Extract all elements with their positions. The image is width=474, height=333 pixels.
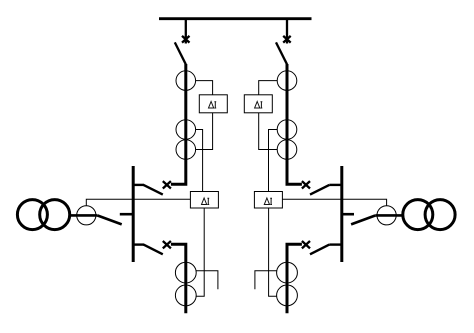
wire CT pair bottom to relay bottom feeder2 — [259, 113, 278, 150]
wire CT pair top to middle relay feeder2 — [269, 130, 278, 192]
disconnector blade upper left branch — [144, 185, 163, 195]
CT feeder2 upper — [277, 71, 297, 91]
transformer T2 right — [403, 200, 455, 230]
busbar — [159, 17, 312, 20]
CT feeder2 pair top — [277, 120, 297, 140]
relay box ΔI feeder2 middle — [254, 192, 282, 209]
wire bar stub upper left — [132, 184, 144, 186]
circuit breaker X feeder2 top — [283, 36, 291, 43]
disconnector blade upper right branch — [310, 185, 329, 195]
wire bottom CT stub — [196, 271, 218, 289]
relay box ΔI feeder1 top — [199, 95, 227, 113]
wire transformer T1 link — [71, 214, 98, 217]
wire bottom CT stub feeder2 — [255, 271, 277, 289]
wire feeder2 main vertical — [287, 64, 302, 184]
circuit breaker X feeder1 top — [182, 36, 190, 43]
circuit breaker X upper left branch — [163, 181, 171, 188]
disconnector blade lower left branch — [144, 245, 163, 255]
CT feeder1 lower pair bottom — [175, 285, 196, 306]
CT feeder1 pair top — [176, 120, 196, 140]
wire bar stub transformer T2 — [342, 213, 354, 216]
circuit breaker X lower right branch — [302, 241, 310, 248]
disconnector blade feeder1 top — [175, 42, 186, 64]
relay box ΔI feeder1 middle — [190, 192, 218, 209]
wire transformer T2 link — [375, 214, 402, 217]
label ΔI — [209, 102, 214, 109]
disconnector blade lower right branch — [310, 245, 329, 255]
disconnector blade transformer T1 — [98, 216, 122, 225]
CT transformer T2 — [377, 206, 396, 225]
wire transformer CT to middle relay feeder2 — [282, 199, 386, 205]
label ΔI — [202, 198, 207, 205]
wire bar stub upper right — [329, 184, 342, 186]
circuit breaker X lower left branch — [163, 241, 171, 248]
wire bar stub lower left — [132, 243, 144, 245]
wire feeder1 main vertical — [171, 64, 186, 184]
transformer T1 left — [17, 200, 69, 230]
CT feeder2 lower pair top — [277, 262, 298, 283]
CT feeder2 lower pair bottom — [277, 285, 298, 306]
wire middle relay to bottom CT feeder2 — [269, 208, 277, 296]
wire CT upper to relay top — [196, 81, 213, 95]
wire bar stub transformer T1 — [120, 213, 133, 216]
wire feeder2 lower vertical — [287, 244, 302, 313]
wire bar stub lower right — [329, 243, 342, 245]
CT feeder2 pair bottom — [277, 140, 297, 160]
wire feeder1 lower vertical — [171, 244, 186, 313]
wire CT pair bottom to relay bottom — [196, 113, 213, 150]
wire CT pair top to middle relay — [196, 130, 203, 192]
sectional bar left — [132, 166, 135, 262]
CT feeder1 lower pair top — [175, 262, 196, 283]
wire middle relay to bottom CT — [196, 208, 204, 296]
wire transformer CT to middle relay — [86, 199, 190, 205]
relay box ΔI feeder2 top — [244, 95, 272, 113]
wire feeder1 drop from busbar — [185, 19, 187, 44]
disconnector blade transformer T2 — [351, 216, 375, 225]
label ΔI — [255, 102, 260, 109]
wire feeder2 drop from busbar — [286, 19, 288, 44]
label ΔI — [264, 198, 269, 205]
wire CT upper to relay top feeder2 — [259, 81, 278, 95]
circuit breaker X upper right branch — [302, 181, 310, 188]
disconnector blade feeder2 top — [276, 42, 287, 64]
CT feeder1 upper — [176, 71, 196, 91]
CT transformer T1 — [77, 206, 96, 225]
CT feeder1 pair bottom — [176, 140, 196, 160]
sectional bar right — [340, 166, 343, 262]
